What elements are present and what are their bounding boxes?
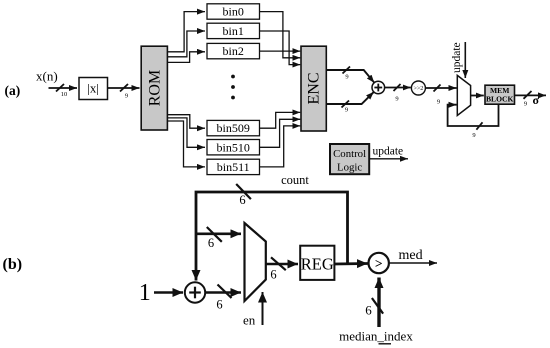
wire ROM to bin1 <box>167 31 205 57</box>
svg-text:9: 9 <box>345 107 348 114</box>
register bin0 <box>207 4 260 19</box>
svg-text:bin509: bin509 <box>217 121 250 135</box>
svg-text:REG: REG <box>301 255 334 274</box>
bus slash 9 feedback <box>476 122 482 129</box>
svg-text:9: 9 <box>395 96 398 103</box>
wire en into mux <box>262 292 264 325</box>
svg-text:bin510: bin510 <box>217 140 250 154</box>
svg-text:6: 6 <box>216 298 222 312</box>
wire adder to mux <box>205 291 241 294</box>
svg-text:x(n): x(n) <box>36 69 58 84</box>
wire count branch to mux <box>196 233 241 236</box>
control logic block <box>330 144 369 174</box>
shifter circle >>2 <box>411 81 425 95</box>
wire ROM to bin511 <box>167 121 205 167</box>
bus slash 6 median <box>372 298 383 314</box>
svg-text:1: 1 <box>139 280 151 306</box>
wire |x| to ROM <box>108 87 140 89</box>
bus slash 10 <box>56 84 64 92</box>
svg-text:median_index: median_index <box>339 329 413 344</box>
wire ROM to bin509 <box>167 115 205 129</box>
wire ROM to bin2 <box>167 52 205 63</box>
wire update into mux <box>464 42 466 78</box>
svg-text:9: 9 <box>472 132 475 139</box>
wire adder to shifter <box>385 87 411 89</box>
svg-text:6: 6 <box>270 268 276 282</box>
wire ROM to bin0 <box>167 12 205 52</box>
wire input x(n) to |x| <box>49 87 78 89</box>
wire bin510 to ENC <box>260 119 301 147</box>
svg-text:bin2: bin2 <box>223 44 244 58</box>
wire mux to REG <box>266 263 298 266</box>
wire ENC top to adder <box>326 70 374 83</box>
svg-text:Control: Control <box>333 148 366 160</box>
wire mux to MEM BLOCK <box>471 95 484 97</box>
svg-text:9: 9 <box>437 99 440 106</box>
wire ROM to bin510 <box>167 118 205 147</box>
comparator circle <box>369 253 389 273</box>
svg-text:|x|: |x| <box>87 81 99 96</box>
register bin2 <box>207 43 260 58</box>
svg-text:count: count <box>281 173 309 187</box>
bus slash 9 <box>120 84 128 92</box>
wire count feedback <box>196 192 348 281</box>
ellipsis dots <box>231 75 235 79</box>
register bin509 <box>207 120 260 135</box>
adder circle (a) <box>372 81 385 94</box>
adder circle (b) <box>185 282 205 302</box>
svg-text:bin0: bin0 <box>223 5 244 19</box>
register bin1 <box>207 23 260 38</box>
wire 1 to adder <box>154 291 183 294</box>
bus slash 6 mux out <box>271 257 286 270</box>
svg-text:10: 10 <box>61 91 68 98</box>
MEM BLOCK <box>485 85 515 104</box>
wire bin1 to ENC <box>260 31 301 65</box>
svg-text:9: 9 <box>345 74 348 81</box>
wire bin0 to ENC <box>260 12 301 58</box>
bus slash 6 adder out <box>218 285 232 299</box>
svg-text:bin511: bin511 <box>217 160 250 174</box>
svg-text:σ: σ <box>533 93 540 107</box>
wire feedback MEM to mux <box>448 104 499 126</box>
mux (a) <box>457 75 470 115</box>
register bin511 <box>207 159 260 174</box>
register bin510 <box>207 140 260 155</box>
bus slash 6 count <box>236 184 251 199</box>
bus slash 9 <box>434 85 441 92</box>
svg-text:9: 9 <box>524 101 527 108</box>
svg-text:ROM: ROM <box>146 70 163 106</box>
wire control logic update <box>369 158 408 160</box>
ENC block <box>301 46 326 131</box>
wire bin509 to ENC <box>260 112 301 128</box>
svg-text:6: 6 <box>208 236 214 250</box>
ROM block <box>141 46 167 130</box>
bus slash 6 branch <box>207 227 222 242</box>
wire MEM BLOCK output sigma <box>515 94 547 96</box>
svg-text:bin1: bin1 <box>223 24 244 38</box>
bus slash 9 <box>394 84 401 91</box>
REG block <box>300 246 334 280</box>
svg-text:update: update <box>373 146 404 158</box>
svg-text:med: med <box>399 248 423 263</box>
svg-text:(a): (a) <box>5 83 21 98</box>
svg-text:BLOCK: BLOCK <box>486 95 514 104</box>
svg-text:en: en <box>243 313 256 328</box>
svg-text:6: 6 <box>239 193 245 207</box>
wire median_index into comparator <box>377 278 380 328</box>
svg-text:6: 6 <box>365 303 372 318</box>
svg-text:>>2: >>2 <box>414 86 424 92</box>
bus slash 9 top <box>343 67 351 74</box>
underline <box>379 343 392 345</box>
wire med output <box>389 262 437 264</box>
bus slash 9 <box>524 91 532 99</box>
svg-text:9: 9 <box>125 93 128 100</box>
mux (b) <box>245 223 266 301</box>
svg-text:>: > <box>375 256 383 271</box>
wire bin2 to ENC <box>260 50 301 52</box>
svg-text:ENC: ENC <box>306 73 323 105</box>
abs block |x| <box>79 78 108 100</box>
bus slash 9 bottom <box>342 101 350 108</box>
wire bin511 to ENC <box>260 126 301 167</box>
svg-text:update: update <box>451 42 463 73</box>
wire shifter to mux <box>425 87 456 89</box>
wire ENC bottom to adder <box>326 92 374 104</box>
svg-text:(b): (b) <box>3 256 23 273</box>
svg-text:Logic: Logic <box>337 162 362 174</box>
wire REG to comparator <box>334 262 367 265</box>
